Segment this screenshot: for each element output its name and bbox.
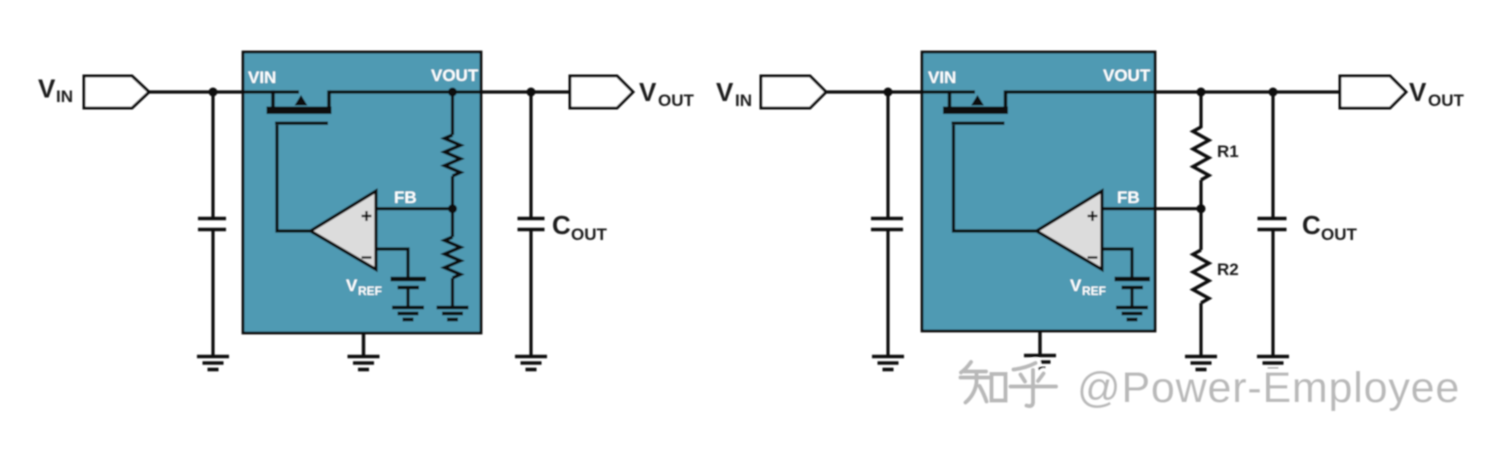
ground (left circuit input): [197, 357, 229, 370]
ground COUT (right circuit): [1257, 357, 1289, 370]
ground COUT (left circuit): [515, 357, 547, 370]
svg-text:VOUT: VOUT: [1103, 66, 1151, 85]
wire transistor drain to VOUT rail (right circuit): [1006, 90, 1341, 93]
ground (right circuit input): [872, 357, 904, 370]
resistor lower feedback divider (left circuit): [451, 209, 454, 237]
transistor Q1 pass PMOS (right circuit): [943, 90, 1008, 124]
node input junction (right circuit): [884, 88, 893, 97]
watermark white halo: [961, 362, 1461, 412]
output terminal arrow VOUT (left circuit): [570, 76, 633, 108]
input terminal arrow VIN (left circuit): [84, 76, 149, 108]
transistor Q1 pass PMOS (left circuit): [267, 90, 332, 124]
watermark glyph hu: [1011, 363, 1057, 406]
wire gate of Q1 to error amplifier output (right circuit): [954, 125, 1037, 231]
battery VREF reference (right circuit): [1115, 279, 1151, 288]
resistor R1 (right circuit): [1193, 127, 1209, 180]
battery VREF reference (left circuit): [391, 279, 427, 288]
label VIN (right circuit input): [716, 77, 752, 110]
wire FB node to error amplifier + input (left circuit): [376, 207, 453, 210]
wire output to COUT (right circuit): [1271, 92, 1274, 217]
svg-text:V: V: [639, 77, 657, 107]
wire junction to input capacitor (right circuit): [886, 92, 889, 217]
wire op-amp - input to VREF (left circuit): [376, 249, 408, 277]
node VOUT to R1 (right circuit): [1197, 88, 1206, 97]
wire input capacitor to ground (left circuit): [211, 230, 214, 356]
wire VOUT to upper divider resistor (left circuit): [451, 92, 454, 135]
label VREF (right circuit): [1070, 276, 1106, 298]
wire transistor drain to VOUT rail (left circuit): [329, 90, 570, 93]
label COUT (left circuit): [552, 210, 608, 244]
svg-text:FB: FB: [394, 188, 417, 207]
input terminal arrow VIN (right circuit): [761, 76, 826, 108]
svg-text:OUT: OUT: [658, 91, 695, 110]
watermark glyph zhi: [961, 362, 1006, 403]
capacitor COUT (left circuit): [518, 219, 545, 230]
svg-text:C: C: [1302, 210, 1321, 240]
node FB external divider tap (right circuit): [1197, 204, 1206, 213]
svg-text:OUT: OUT: [1428, 91, 1465, 110]
ground IC (left circuit): [348, 357, 380, 370]
svg-text:OUT: OUT: [571, 225, 608, 244]
svg-text:REF: REF: [358, 284, 382, 298]
wire COUT to ground (right circuit): [1271, 230, 1274, 356]
node output junction COUT (right circuit): [1269, 88, 1278, 97]
wire op-amp - input to VREF (right circuit): [1102, 249, 1132, 277]
label VOUT (left circuit output): [639, 77, 695, 110]
svg-text:@Power-Employee: @Power-Employee: [1077, 364, 1460, 412]
svg-text:OUT: OUT: [1321, 225, 1358, 244]
wire upper resistor to FB node (left circuit): [451, 176, 454, 209]
wire output to COUT (left circuit): [529, 92, 532, 217]
ground lower divider resistor (left circuit, inside box): [437, 308, 469, 320]
wire IC ground pin (right circuit): [1038, 331, 1041, 355]
svg-text:R2: R2: [1217, 260, 1239, 279]
svg-text:VOUT: VOUT: [431, 66, 479, 85]
capacitor COUT (right circuit): [1258, 219, 1287, 230]
ground VREF (right circuit, inside box): [1116, 308, 1148, 320]
label VOUT (right circuit output): [1409, 77, 1465, 110]
wire input capacitor to ground (right circuit): [886, 230, 889, 356]
output terminal arrow VOUT (right circuit): [1340, 76, 1406, 108]
op-amp U2 error amplifier (right circuit): [1037, 191, 1103, 270]
wire VIN rail into transistor source (left circuit): [243, 90, 299, 93]
svg-text:V: V: [716, 77, 734, 107]
node FB (left circuit): [448, 204, 457, 213]
IC body U1 (left regulator box): [243, 52, 481, 333]
ground R2 (right circuit): [1185, 357, 1217, 370]
node VOUT divider tap (left circuit): [448, 88, 457, 97]
wire gate of Q1 to error amplifier output (left circuit): [277, 125, 310, 231]
ground IC (right circuit): [1024, 356, 1056, 369]
svg-text:V: V: [1070, 276, 1082, 295]
resistor upper feedback divider (left circuit): [445, 135, 461, 176]
svg-text:VIN: VIN: [248, 68, 276, 87]
node input junction (left circuit): [209, 88, 218, 97]
label COUT (right circuit): [1302, 210, 1358, 244]
svg-text:REF: REF: [1082, 284, 1106, 298]
wire input to IC (left circuit): [149, 90, 300, 93]
wire VIN rail into transistor source (right circuit): [922, 90, 975, 93]
svg-text:V: V: [38, 74, 56, 104]
ground VREF (left circuit, inside box): [392, 308, 424, 320]
label VIN (left circuit input): [38, 74, 73, 107]
svg-text:IN: IN: [56, 87, 73, 106]
svg-text:FB: FB: [1117, 188, 1140, 207]
svg-text:IN: IN: [735, 91, 752, 110]
label VREF (left circuit): [346, 276, 382, 298]
IC body U1 (right regulator box): [922, 52, 1155, 331]
capacitor CIN (left circuit input capacitor): [198, 219, 226, 230]
capacitor CIN (right circuit input capacitor): [871, 219, 903, 230]
wire op-amp + input to external FB node (right circuit): [1102, 207, 1201, 210]
wire COUT to ground (left circuit): [529, 230, 532, 356]
resistor R2 (right circuit): [1199, 209, 1202, 250]
svg-text:V: V: [346, 276, 358, 295]
op-amp U2 error amplifier (left circuit): [311, 191, 377, 270]
wire junction to input capacitor (left circuit): [211, 92, 214, 217]
node output junction COUT (left circuit): [527, 88, 536, 97]
wire VOUT to R1 (right circuit): [1199, 92, 1202, 128]
svg-text:V: V: [1409, 77, 1427, 107]
wire input to IC (right circuit): [826, 90, 976, 93]
svg-text:C: C: [552, 210, 571, 240]
wire IC ground pin (left circuit): [362, 333, 365, 356]
svg-text:R1: R1: [1217, 142, 1239, 161]
watermark text zhihu @Power-Employee: [1077, 364, 1460, 412]
svg-text:VIN: VIN: [928, 68, 956, 87]
